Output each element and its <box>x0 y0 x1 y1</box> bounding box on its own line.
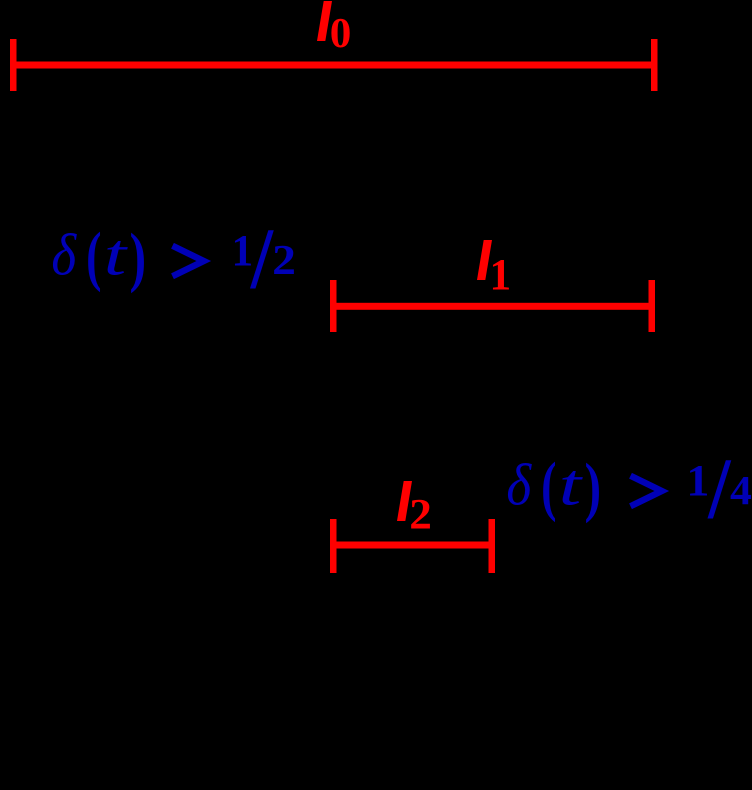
interval I0 right endpoint tick <box>651 39 658 91</box>
svg-text:): ) <box>585 449 602 524</box>
label I1: subscript 1 <box>490 251 512 299</box>
interval I0 line <box>10 62 658 69</box>
annotation 2: numerator 1 <box>686 456 709 505</box>
interval I2 right endpoint tick <box>489 519 496 573</box>
annotation 1: greater-than <box>173 246 204 276</box>
svg-text:(: ( <box>86 220 101 293</box>
annotation 2: delta <box>506 453 532 518</box>
svg-text:t: t <box>104 223 129 288</box>
interval I1 line <box>330 303 655 310</box>
svg-text:(: ( <box>541 450 556 523</box>
annotation 1: letter t <box>104 223 129 288</box>
label I0: letter I <box>317 1 332 41</box>
label I0: subscript 0 <box>330 10 352 57</box>
svg-text:1: 1 <box>490 251 512 299</box>
annotation 2: left paren <box>541 450 556 523</box>
svg-text:1: 1 <box>686 456 709 505</box>
annotation 1: fraction slash <box>250 211 274 307</box>
svg-text:δ: δ <box>506 453 532 518</box>
svg-text:2: 2 <box>272 236 296 283</box>
label I2: subscript 2 <box>409 490 432 538</box>
annotation 2: denominator 4 <box>730 468 752 514</box>
interval I1 right endpoint tick <box>649 280 656 332</box>
annotation 2: greater-than <box>631 476 662 506</box>
svg-text:/: / <box>707 441 731 537</box>
interval I2 left endpoint tick <box>330 519 337 573</box>
svg-text:δ: δ <box>51 223 77 288</box>
svg-text:4: 4 <box>730 468 752 514</box>
label I2: letter I <box>397 481 412 521</box>
annotation 1: numerator 1 <box>232 227 254 275</box>
annotation 1: denominator 2 <box>272 236 296 283</box>
label I1: letter I <box>477 240 492 280</box>
annotation 2: right paren <box>585 449 602 524</box>
annotation 1: left paren <box>86 220 101 293</box>
interval I0 left endpoint tick <box>10 39 17 91</box>
annotation 1: delta <box>51 223 77 288</box>
interval I1 left endpoint tick <box>330 280 337 332</box>
svg-text:): ) <box>130 219 147 294</box>
svg-text:/: / <box>250 211 274 307</box>
svg-text:2: 2 <box>409 490 432 538</box>
svg-text:t: t <box>559 453 584 518</box>
annotation 2: letter t <box>559 453 584 518</box>
interval I2 line <box>330 542 495 549</box>
svg-text:0: 0 <box>330 10 352 57</box>
annotation 1: right paren <box>130 219 147 294</box>
annotation 2: fraction slash <box>707 441 731 537</box>
